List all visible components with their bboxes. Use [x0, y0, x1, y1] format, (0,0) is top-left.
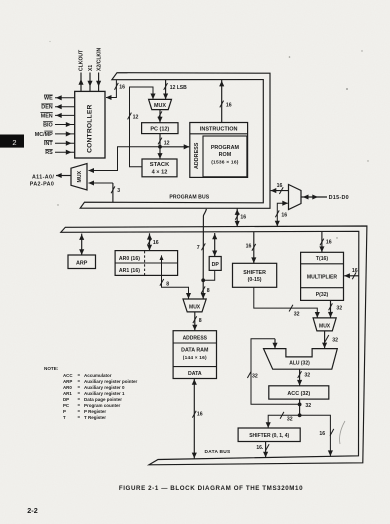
svg-text:T(16): T(16) — [316, 256, 328, 262]
svg-text:=: = — [78, 409, 81, 414]
svg-text:AR0: AR0 — [63, 385, 72, 390]
svg-text:X2/CLKIN: X2/CLKIN — [96, 47, 102, 71]
svg-text:=: = — [78, 385, 81, 390]
svg-text:32: 32 — [332, 338, 338, 344]
svg-text:SHIFTER: SHIFTER — [243, 270, 266, 276]
svg-text:INT: INT — [44, 141, 53, 147]
svg-text:ACC (32): ACC (32) — [287, 391, 310, 397]
svg-text:Auxiliary register 1: Auxiliary register 1 — [84, 391, 125, 396]
svg-text:T: T — [63, 415, 66, 420]
svg-text:FIGURE 2-1 — BLOCK DIAGRAM OF: FIGURE 2-1 — BLOCK DIAGRAM OF THE TMS320… — [119, 485, 303, 492]
svg-text:PA2-PA0: PA2-PA0 — [30, 181, 54, 187]
svg-text:32: 32 — [287, 417, 293, 423]
svg-text:(0-15): (0-15) — [248, 277, 262, 283]
svg-text:32: 32 — [336, 306, 342, 312]
svg-text:MEN: MEN — [41, 113, 53, 119]
svg-text:ROM: ROM — [219, 152, 232, 158]
svg-text:=: = — [78, 391, 81, 396]
svg-text:MC/MP: MC/MP — [35, 132, 53, 138]
svg-text:ACC: ACC — [63, 373, 73, 378]
svg-text:Accumulator: Accumulator — [84, 373, 112, 378]
svg-text:16: 16 — [326, 240, 332, 246]
svg-text:Auxiliary register 0: Auxiliary register 0 — [84, 385, 125, 390]
svg-text:RS: RS — [45, 150, 53, 156]
svg-text:32: 32 — [304, 372, 310, 378]
svg-text:D15-D0: D15-D0 — [329, 195, 349, 201]
svg-text:=: = — [78, 397, 81, 402]
svg-text:DP: DP — [63, 397, 69, 402]
svg-text:12 LSB: 12 LSB — [170, 85, 187, 91]
svg-text:MUX: MUX — [154, 103, 166, 109]
svg-text:16: 16 — [119, 85, 125, 91]
svg-text:2: 2 — [12, 138, 16, 147]
svg-text:DEN: DEN — [41, 105, 52, 111]
svg-text:P Register: P Register — [84, 409, 106, 414]
svg-text:(1536 × 16): (1536 × 16) — [211, 160, 239, 166]
svg-text:CLKOUT: CLKOUT — [79, 49, 85, 71]
svg-text:DATA: DATA — [188, 371, 202, 377]
svg-text:PC: PC — [63, 403, 70, 408]
svg-text:PROGRAM: PROGRAM — [211, 145, 240, 151]
svg-text:16: 16 — [277, 183, 283, 189]
svg-text:DATA RAM: DATA RAM — [181, 347, 209, 353]
svg-text:Program counter: Program counter — [84, 403, 121, 408]
svg-text:16: 16 — [226, 102, 232, 108]
svg-text:8: 8 — [199, 318, 202, 324]
svg-text:12: 12 — [164, 140, 170, 146]
svg-text:=: = — [78, 415, 81, 420]
svg-text:16: 16 — [281, 213, 287, 219]
svg-text:32: 32 — [252, 374, 258, 380]
svg-text:SHIFTER (0, 1, 4): SHIFTER (0, 1, 4) — [249, 433, 289, 439]
svg-text:MUX: MUX — [189, 304, 201, 310]
svg-text:Data page pointer: Data page pointer — [84, 397, 122, 402]
svg-text:=: = — [78, 373, 81, 378]
svg-text:12: 12 — [133, 114, 139, 120]
svg-text:AR0 (16): AR0 (16) — [119, 256, 140, 262]
svg-text:3: 3 — [117, 188, 120, 194]
svg-text:16: 16 — [197, 412, 203, 418]
svg-text:16: 16 — [153, 240, 159, 246]
svg-text:(144 × 16): (144 × 16) — [183, 355, 207, 361]
svg-text:=: = — [78, 403, 81, 408]
svg-text:16: 16 — [352, 268, 358, 274]
svg-text:X1: X1 — [88, 65, 94, 71]
svg-text:P: P — [63, 409, 66, 414]
svg-text:=: = — [78, 379, 81, 384]
svg-text:CONTROLLER: CONTROLLER — [86, 104, 93, 152]
svg-text:16: 16 — [246, 243, 252, 249]
svg-text:AR1: AR1 — [63, 391, 72, 396]
svg-text:ADDRESS: ADDRESS — [183, 336, 208, 342]
svg-text:A11-A0/: A11-A0/ — [32, 174, 54, 180]
svg-text:WE: WE — [44, 96, 53, 102]
svg-text:AR1 (16): AR1 (16) — [119, 268, 140, 274]
svg-text:MUX: MUX — [77, 170, 83, 182]
svg-text:ARP: ARP — [63, 379, 72, 384]
svg-text:DP: DP — [212, 262, 220, 268]
svg-text:ARP: ARP — [76, 260, 88, 266]
svg-text:4 × 12: 4 × 12 — [152, 170, 168, 176]
svg-text:MULTIPLIER: MULTIPLIER — [307, 274, 338, 280]
svg-text:PROGRAM BUS: PROGRAM BUS — [169, 195, 209, 201]
svg-text:16: 16 — [240, 215, 246, 221]
svg-text:NOTE:: NOTE: — [44, 366, 59, 371]
svg-text:8: 8 — [207, 288, 210, 294]
svg-text:P(32): P(32) — [316, 292, 329, 298]
svg-text:BIO: BIO — [43, 122, 53, 128]
svg-text:2-2: 2-2 — [27, 506, 37, 515]
svg-text:ALU (32): ALU (32) — [289, 361, 310, 367]
svg-text:STACK: STACK — [150, 162, 170, 168]
svg-text:Auxiliary register pointer: Auxiliary register pointer — [84, 379, 138, 384]
svg-text:16: 16 — [319, 431, 325, 437]
svg-text:INSTRUCTION: INSTRUCTION — [200, 127, 238, 133]
svg-text:7: 7 — [197, 245, 200, 251]
svg-text:T Register: T Register — [84, 415, 106, 420]
svg-text:32: 32 — [305, 403, 311, 409]
svg-text:MUX: MUX — [319, 324, 331, 330]
svg-text:16.: 16. — [256, 445, 264, 451]
svg-text:8: 8 — [166, 282, 169, 288]
svg-text:DATA BUS: DATA BUS — [205, 449, 231, 455]
svg-text:ADDRESS: ADDRESS — [194, 142, 200, 169]
svg-text:PC (12): PC (12) — [150, 127, 169, 133]
svg-text:32: 32 — [294, 312, 300, 318]
